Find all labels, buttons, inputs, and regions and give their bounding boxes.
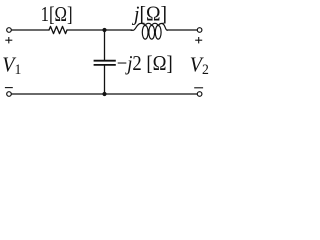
- capacitor C (-j2 ohm): [94, 61, 116, 65]
- terminal port 1 bottom: [7, 92, 12, 97]
- svg-text:j[Ω]: j[Ω]: [131, 2, 167, 26]
- polarity minus V2: [194, 87, 203, 89]
- wire bottom: [12, 93, 198, 95]
- terminal port 2 bottom: [197, 92, 202, 97]
- wire resistor to node A: [67, 29, 105, 31]
- svg-text:1[Ω]: 1[Ω]: [41, 2, 73, 26]
- node B junction dot bottom: [102, 92, 106, 96]
- resistor R (1 ohm): [49, 26, 67, 33]
- inductor L (j ohm): [131, 23, 167, 39]
- wire node A to inductor: [105, 29, 133, 31]
- wire inductor to right terminal: [167, 29, 197, 31]
- polarity plus V1: [5, 37, 12, 43]
- svg-text:−j2 [Ω]: −j2 [Ω]: [117, 51, 173, 75]
- node A junction dot top: [102, 28, 106, 32]
- polarity plus V2: [195, 37, 202, 43]
- terminal port 1 top: [7, 28, 12, 33]
- polarity minus V1: [5, 87, 13, 89]
- terminal port 2 top: [197, 28, 202, 33]
- wire top-left: [12, 29, 49, 31]
- wire vertical capacitor top: [104, 30, 106, 60]
- wire vertical capacitor bottom: [104, 66, 106, 95]
